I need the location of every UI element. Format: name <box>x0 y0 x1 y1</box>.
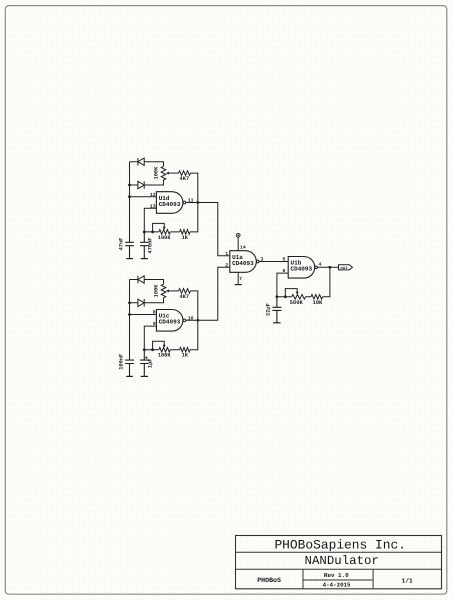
svg-text:out: out <box>340 266 348 271</box>
resistor 1K (osc2) <box>180 347 190 352</box>
junction: cap2 node (osc1) <box>143 231 146 234</box>
trimmer 100K (osc1) <box>159 230 170 235</box>
feedback row wire (osc2) <box>144 349 179 351</box>
svg-text:100K: 100K <box>158 235 172 241</box>
svg-text:100K: 100K <box>154 166 160 180</box>
svg-text:13: 13 <box>150 203 156 209</box>
svg-text:100K: 100K <box>154 284 160 298</box>
svg-text:1/1: 1/1 <box>402 578 413 585</box>
svg-text:1K: 1K <box>182 235 189 241</box>
pot wiper arrow (osc2) <box>168 290 178 292</box>
svg-text:1: 1 <box>225 251 228 257</box>
wire: gate input 12 (osc1) <box>130 196 157 198</box>
junction: diodes left node (osc2) <box>128 301 131 304</box>
potentiometer 100K (osc2) <box>161 284 166 298</box>
wire: pin 7 ground stub <box>237 272 239 284</box>
junction: input 12 node (osc1) <box>128 195 131 198</box>
junction: trimmer left (osc2) <box>151 348 154 351</box>
svg-text:Rev 1.0: Rev 1.0 <box>324 572 349 579</box>
out flag <box>339 265 353 270</box>
diode D-top (osc1) cathode-left <box>137 158 139 166</box>
wire: pin 6 to RC node <box>277 273 288 297</box>
wire 4K7 to feedback column (osc1) <box>190 173 198 232</box>
NAND gate U1a CD4093 <box>230 251 257 273</box>
plus mark polarized cap (osc2) <box>145 357 147 359</box>
ground bar cap2 (osc1) <box>141 258 148 260</box>
svg-text:9: 9 <box>153 321 156 327</box>
svg-text:1K: 1K <box>182 353 189 359</box>
ground bar cap1 (osc2) <box>126 375 133 377</box>
svg-text:CD4093: CD4093 <box>159 201 181 208</box>
svg-text:8: 8 <box>153 310 156 316</box>
wire: left node vertical (osc1) <box>129 162 131 243</box>
wire: 10K to output <box>323 267 330 297</box>
NAND gate U1d CD4093 <box>156 192 183 214</box>
junction: RC node <box>276 295 279 298</box>
wire: gate input 13 (osc1) <box>144 208 156 232</box>
junction: cap2 node (osc2) <box>143 348 146 351</box>
wire: top branch to pot (osc2) <box>130 280 164 285</box>
wire: RC row <box>277 296 311 298</box>
svg-text:CD4093: CD4093 <box>159 319 181 326</box>
svg-text:PHOBoS: PHOBoS <box>257 577 281 584</box>
trimmer wiper loop (osc2) <box>153 341 165 350</box>
svg-text:100K: 100K <box>158 353 172 359</box>
wire: gate input 9 (osc2) <box>144 326 156 350</box>
svg-text:47nF: 47nF <box>118 238 124 251</box>
svg-text:100nF: 100nF <box>118 354 124 370</box>
junction: output/feedback (osc1) <box>196 201 199 204</box>
wire: U1b output <box>317 266 338 268</box>
junction: output/feedback (osc2) <box>196 319 199 322</box>
trimmer 100K (osc2) <box>159 347 170 352</box>
wire: U1d out to U1a pin 1 <box>186 203 230 256</box>
capacitor 22uF <box>272 297 281 323</box>
svg-text:12: 12 <box>150 192 156 198</box>
wire 4K7 to feedback column (osc2) <box>190 291 198 350</box>
title block row lines <box>236 552 442 589</box>
svg-text:14: 14 <box>240 245 246 251</box>
capacitor 47nF (osc1) <box>125 242 134 258</box>
svg-text:1µF: 1µF <box>147 359 153 369</box>
junction: input 8 node (osc2) <box>128 313 131 316</box>
resistor 4K7 (osc1) <box>179 171 191 176</box>
wire: U1a out to U1b pin 5 <box>259 261 288 263</box>
ground bar U1a pin 7 <box>235 284 242 286</box>
svg-text:7: 7 <box>239 276 242 282</box>
svg-text:PHOBoSapiens Inc.: PHOBoSapiens Inc. <box>274 538 406 553</box>
trimmer wiper loop (osc1) <box>153 223 165 232</box>
junction: 500K left <box>284 295 287 298</box>
svg-text:4K7: 4K7 <box>180 294 190 300</box>
ground bar cap2 (osc2) <box>141 375 148 377</box>
capacitor 470nF (osc1) <box>140 232 149 259</box>
500K wiper loop <box>285 289 297 297</box>
wire: left node vertical (osc2) <box>129 280 131 361</box>
pot wiper arrow (osc1) <box>168 172 178 174</box>
title block outer box <box>236 536 442 589</box>
junction: diodes left node (osc1) <box>128 184 131 187</box>
wire: U1c out to U1a pin 2 <box>186 267 230 320</box>
wire: gate input 8 (osc2) <box>130 314 157 316</box>
power symbol +V (pin 14) <box>236 233 240 237</box>
ground bar cap1 (osc1) <box>126 258 133 260</box>
junction: output node <box>329 266 332 269</box>
svg-text:CD4093: CD4093 <box>232 260 254 267</box>
svg-text:500K: 500K <box>290 299 304 306</box>
svg-text:470nF: 470nF <box>147 238 153 254</box>
wire: top branch to pot (osc1) <box>130 162 164 167</box>
svg-text:5: 5 <box>283 257 286 263</box>
svg-text:CD4093: CD4093 <box>291 266 313 273</box>
svg-text:4: 4 <box>318 261 321 267</box>
svg-text:22µF: 22µF <box>265 303 271 316</box>
capacitor 1µF (osc2) <box>140 350 149 377</box>
potentiometer 500K <box>292 295 306 300</box>
ground bar 22uF <box>273 322 280 324</box>
potentiometer 100K (osc1) <box>161 166 166 180</box>
svg-text:4-4-2015: 4-4-2015 <box>323 582 351 589</box>
NAND gate U1b CD4093 <box>288 257 315 279</box>
junction: trimmer left (osc1) <box>151 231 154 234</box>
diode D-bottom (osc1) cathode-right <box>130 180 164 185</box>
diode D-bottom (osc2) cathode-right <box>130 298 164 303</box>
svg-text:4K7: 4K7 <box>180 176 190 182</box>
svg-text:10K: 10K <box>312 299 323 306</box>
svg-text:2: 2 <box>225 262 228 268</box>
capacitor 100nF (osc2) <box>125 360 134 376</box>
resistor 10K <box>311 295 323 300</box>
diode D-top (osc2) cathode-left <box>137 276 139 284</box>
NAND gate U1c CD4093 <box>156 310 183 332</box>
wire: pin 14 power stub <box>237 237 239 251</box>
feedback row wire (osc1) <box>144 231 179 233</box>
resistor 1K (osc1) <box>180 230 190 235</box>
resistor 4K7 (osc2) <box>179 289 191 294</box>
svg-text:NANDulator: NANDulator <box>305 554 379 568</box>
